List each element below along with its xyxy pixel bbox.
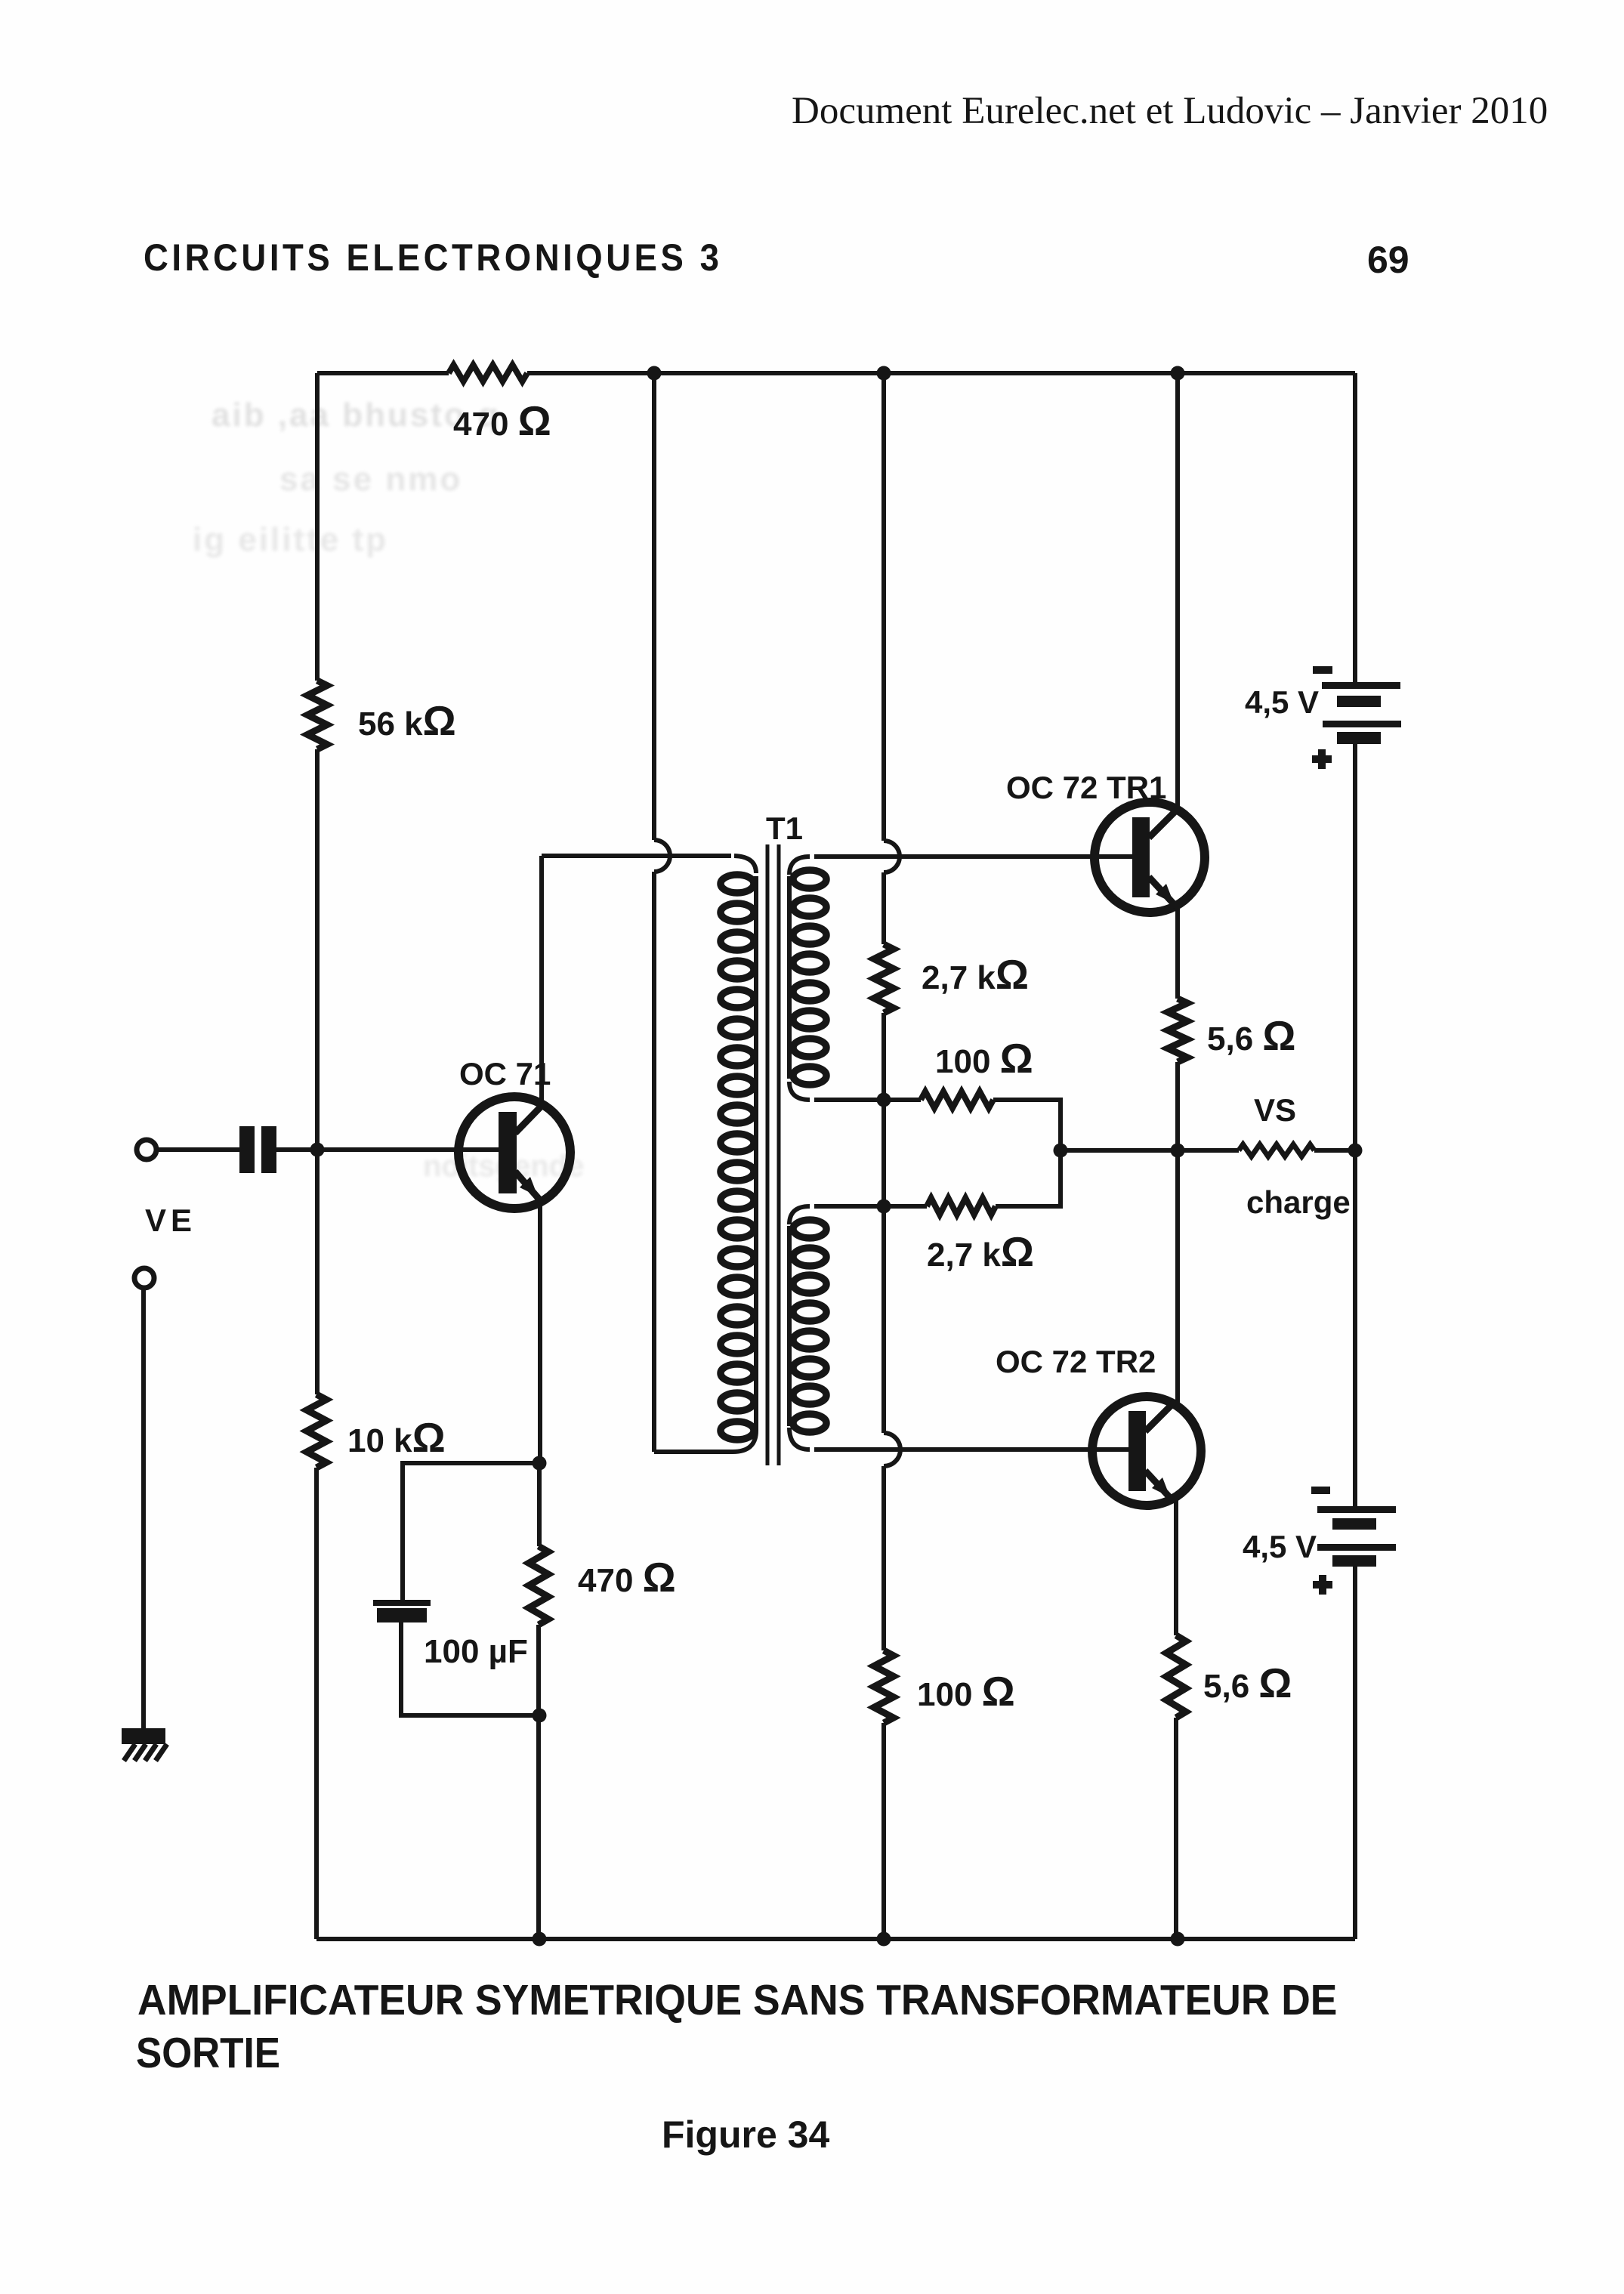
transformer T1 secondary 1 top lead bbox=[789, 857, 810, 875]
resistor R7 100 ohm (feedback) bbox=[921, 1091, 993, 1108]
node junction top rail / R4 branch bbox=[877, 366, 891, 381]
transformer T1 secondary 1 bottom lead bbox=[789, 1082, 810, 1100]
terminal input VE top bbox=[137, 1140, 156, 1159]
svg-text:5,6 Ω: 5,6 Ω bbox=[1207, 1012, 1296, 1059]
svg-text:10 kΩ: 10 kΩ bbox=[347, 1414, 446, 1461]
wire R8 to corner up bbox=[996, 1150, 1061, 1206]
battery B1 plate short thick bottom bbox=[1337, 732, 1381, 744]
wire R10a to VS node bbox=[1175, 1062, 1180, 1150]
figure label Figure 34 bbox=[662, 2113, 829, 2157]
wire R9 to bottom rail bbox=[881, 1723, 886, 1939]
transistor Q3 OC72 TR2 body circle bbox=[1092, 1397, 1201, 1505]
svg-text:4,5 V: 4,5 V bbox=[1245, 684, 1319, 720]
transistor Q3 emitter stroke bbox=[1145, 1471, 1172, 1500]
transformer T1 primary top lead bbox=[734, 856, 756, 873]
wire R4 branch to resistor bbox=[881, 872, 886, 944]
transistor Q2 collector stroke bbox=[1149, 808, 1178, 838]
wire right rail middle (B1 to VS node) bbox=[1353, 744, 1357, 1150]
wire secondary 2 bottom to TR2 base bbox=[814, 1447, 1129, 1452]
faint page bleed-through ghost text 1 bbox=[211, 397, 501, 434]
wire top supply rail left segment bbox=[317, 371, 449, 375]
wire bottom supply rail bbox=[316, 1937, 1355, 1941]
transistor Q1 OC71 body circle bbox=[458, 1097, 570, 1209]
transistor Q2 OC72 TR1 body circle bbox=[1095, 802, 1205, 912]
wire node B branch to R9 bbox=[881, 1466, 886, 1650]
wire capacitor C1 to OC71 base bbox=[276, 1147, 500, 1152]
wire Q1 collector to transformer primary bbox=[542, 854, 731, 858]
wire R7 to corner bbox=[993, 1100, 1061, 1150]
battery B2 plate short thick bottom bbox=[1332, 1555, 1376, 1567]
wire R10b to bottom rail bbox=[1174, 1718, 1178, 1939]
ground symbol hatching bbox=[124, 1744, 167, 1761]
transformer T1 primary winding loops bbox=[721, 875, 754, 893]
transformer T1 primary winding spine bbox=[754, 876, 758, 1431]
node junction R7/R8 corner on VS line bbox=[1054, 1144, 1068, 1158]
resistor R9 100 ohm (bottom) bbox=[874, 1650, 894, 1723]
node junction bottom rail / R9 branch bbox=[877, 1932, 891, 1947]
node junction C2 / R6 bottom bbox=[533, 1709, 547, 1723]
wire Q1 emitter down bbox=[538, 1201, 542, 1463]
wire VS line left segment bbox=[1061, 1148, 1239, 1153]
transistor Q3 collector stroke bbox=[1145, 1402, 1175, 1431]
wire R4 to node A bbox=[881, 1013, 886, 1100]
node B junction (secondary 2 top / R8 branch) bbox=[877, 1199, 891, 1214]
resistor R5 10 kohm bbox=[307, 1394, 326, 1468]
wire primary return upper (from top rail) bbox=[652, 373, 656, 840]
resistor R6 470 ohm (emitter) bbox=[529, 1546, 548, 1625]
resistor R1 470 ohm (top rail) bbox=[449, 365, 527, 381]
battery B2 plate long bottom bbox=[1317, 1544, 1396, 1551]
transistor Q2 base bar bbox=[1132, 817, 1150, 897]
resistor R11 charge (load) bbox=[1239, 1144, 1314, 1156]
svg-text:2,7 kΩ: 2,7 kΩ bbox=[922, 951, 1029, 998]
wire hop over secondary 1 top wire bbox=[884, 841, 900, 872]
node junction bottom rail / R6 branch bbox=[533, 1932, 547, 1947]
wire TR2 emitter down bbox=[1174, 1498, 1178, 1635]
svg-text:2,7 kΩ: 2,7 kΩ bbox=[927, 1228, 1034, 1275]
wire right rail (VS node to battery B2) bbox=[1353, 1150, 1357, 1506]
transistor Q1 base bar bbox=[499, 1112, 517, 1193]
node junction top rail / primary return bbox=[647, 366, 662, 381]
transformer T1 secondary winding 1 loops bbox=[793, 870, 826, 888]
wire hop over TR2 base wire bbox=[884, 1433, 900, 1466]
header text Document Eurelec.net et Ludovic - Janvier 2010 bbox=[792, 89, 1548, 133]
transformer T1 secondary 2 bottom lead bbox=[789, 1428, 810, 1450]
svg-text:4,5 V: 4,5 V bbox=[1243, 1529, 1317, 1564]
wire left rail upper bbox=[315, 373, 320, 681]
wire left rail lower bbox=[314, 1468, 319, 1939]
wire node B to R8 bbox=[814, 1204, 927, 1209]
transistor Q3 emitter arrowhead bbox=[1152, 1477, 1170, 1497]
transistor Q1 collector stroke bbox=[515, 1104, 543, 1133]
wire R4 branch upper (top rail down) bbox=[881, 373, 886, 841]
wire C2 bottom to corner bbox=[401, 1622, 539, 1715]
wire top supply rail right segment bbox=[527, 371, 1355, 375]
ground symbol bar bbox=[122, 1728, 165, 1744]
resistor R2 56 kohm bbox=[307, 681, 327, 749]
caption line 1 bbox=[137, 1975, 1337, 2025]
node A junction (secondary 1 bottom / R4 / R7) bbox=[877, 1093, 891, 1107]
wire TR2 collector to VS node bbox=[1175, 1150, 1180, 1405]
battery B2 plate short thick top bbox=[1332, 1518, 1376, 1530]
svg-text:OC 72 TR1: OC 72 TR1 bbox=[1006, 770, 1166, 805]
battery B1 plus sign bbox=[1312, 749, 1332, 769]
capacitor C1 left plate bbox=[239, 1126, 255, 1173]
capacitor C2 100uF top plate bbox=[373, 1600, 431, 1606]
faint page bleed-through ghost text 4 bbox=[423, 1150, 584, 1184]
svg-text:56 kΩ: 56 kΩ bbox=[358, 697, 456, 744]
battery B1 plate short thick top bbox=[1337, 696, 1381, 707]
battery B1 plate long bottom bbox=[1323, 721, 1401, 727]
battery B2 plus sign bbox=[1313, 1575, 1332, 1595]
wire right rail top (to battery B1) bbox=[1353, 373, 1357, 682]
svg-text:100 Ω: 100 Ω bbox=[935, 1035, 1033, 1082]
battery B1 minus sign bbox=[1313, 666, 1332, 674]
wire VE bottom terminal to ground bbox=[141, 1289, 146, 1729]
svg-text:charge: charge bbox=[1246, 1184, 1351, 1220]
wire Q1 emitter node to R6 bbox=[537, 1463, 542, 1546]
battery B2 minus sign bbox=[1311, 1487, 1330, 1494]
wire input to capacitor C1 bbox=[157, 1147, 239, 1152]
wire right rail bottom (B2 to bottom rail) bbox=[1353, 1566, 1357, 1939]
faint page bleed-through ghost text 3 bbox=[193, 521, 388, 559]
wire TR1 emitter down bbox=[1175, 904, 1180, 999]
svg-text:470 Ω: 470 Ω bbox=[578, 1554, 676, 1601]
resistor R4 2.7 kohm bbox=[874, 944, 894, 1013]
node junction bottom rail / R10 branch bbox=[1171, 1932, 1185, 1947]
transistor Q1 emitter arrowhead bbox=[520, 1177, 538, 1196]
svg-text:VS: VS bbox=[1254, 1092, 1296, 1128]
wire primary bottom lead bbox=[654, 1431, 756, 1452]
wire node B down bbox=[881, 1206, 886, 1433]
node junction VS / TR1 emitter column bbox=[1171, 1144, 1185, 1158]
capacitor C2 100uF bottom plate bbox=[377, 1608, 427, 1622]
svg-text:100 µF: 100 µF bbox=[424, 1633, 528, 1670]
transistor Q3 base bar bbox=[1128, 1411, 1146, 1491]
wire hop over collector wire bbox=[654, 840, 670, 872]
capacitor C1 right plate bbox=[261, 1126, 276, 1173]
svg-text:VE: VE bbox=[145, 1203, 196, 1238]
wire R6 to bottom junction bbox=[536, 1625, 541, 1939]
wire Q1 collector riser bbox=[539, 856, 544, 1104]
svg-text:470 Ω: 470 Ω bbox=[453, 397, 551, 444]
transistor Q2 emitter stroke bbox=[1149, 877, 1176, 906]
transformer T1 core line right bbox=[777, 844, 781, 1465]
svg-text:OC 72 TR2: OC 72 TR2 bbox=[996, 1344, 1156, 1379]
page title CIRCUITS ELECTRONIQUES 3 bbox=[144, 236, 722, 279]
wire Q1 emitter node to C2 corner bbox=[403, 1463, 539, 1601]
wire primary return lower bbox=[652, 872, 656, 1452]
page number 69 bbox=[1367, 238, 1409, 282]
wire VS line right segment bbox=[1314, 1148, 1355, 1153]
battery B2 4.5V plate long top bbox=[1317, 1506, 1396, 1513]
svg-text:100 Ω: 100 Ω bbox=[917, 1668, 1015, 1715]
transformer T1 secondary winding 2 spine bbox=[787, 1226, 792, 1426]
wire left rail middle bbox=[315, 749, 320, 1394]
transistor Q1 emitter stroke bbox=[515, 1172, 540, 1200]
svg-text:OC 71: OC 71 bbox=[459, 1056, 551, 1091]
svg-text:5,6 Ω: 5,6 Ω bbox=[1203, 1660, 1292, 1706]
caption line 2 bbox=[136, 2028, 280, 2078]
faint page bleed-through ghost text 2 bbox=[279, 461, 462, 499]
transformer T1 secondary 2 top lead bbox=[789, 1206, 810, 1224]
transformer T1 secondary winding 2 loops bbox=[793, 1220, 826, 1238]
wire secondary 1 bottom to node A bbox=[814, 1098, 921, 1102]
battery B1 4.5V plate long top bbox=[1322, 682, 1400, 689]
node junction VS / right rail bbox=[1348, 1144, 1363, 1158]
resistor R10b 5.6 ohm (TR2 emitter) bbox=[1166, 1635, 1186, 1718]
wire TR1 collector to top rail bbox=[1175, 373, 1180, 810]
resistor R8 2.7 kohm (lower) bbox=[927, 1198, 996, 1215]
node junction Q1 emitter / R6 / C2 bbox=[533, 1456, 547, 1471]
transformer T1 secondary winding 1 spine bbox=[787, 876, 792, 1079]
transistor Q2 emitter arrowhead bbox=[1156, 884, 1174, 903]
node junction input / left rail bbox=[310, 1143, 325, 1157]
svg-text:T1: T1 bbox=[766, 810, 803, 846]
wire node A to node B bbox=[881, 1100, 886, 1206]
node junction top rail / TR1 collector bbox=[1171, 366, 1185, 381]
terminal input VE bottom bbox=[134, 1268, 154, 1288]
wire secondary 1 top to TR1 base bbox=[814, 854, 1134, 859]
transformer T1 core line left bbox=[766, 844, 770, 1465]
resistor R10a 5.6 ohm (TR1 emitter) bbox=[1168, 999, 1187, 1062]
